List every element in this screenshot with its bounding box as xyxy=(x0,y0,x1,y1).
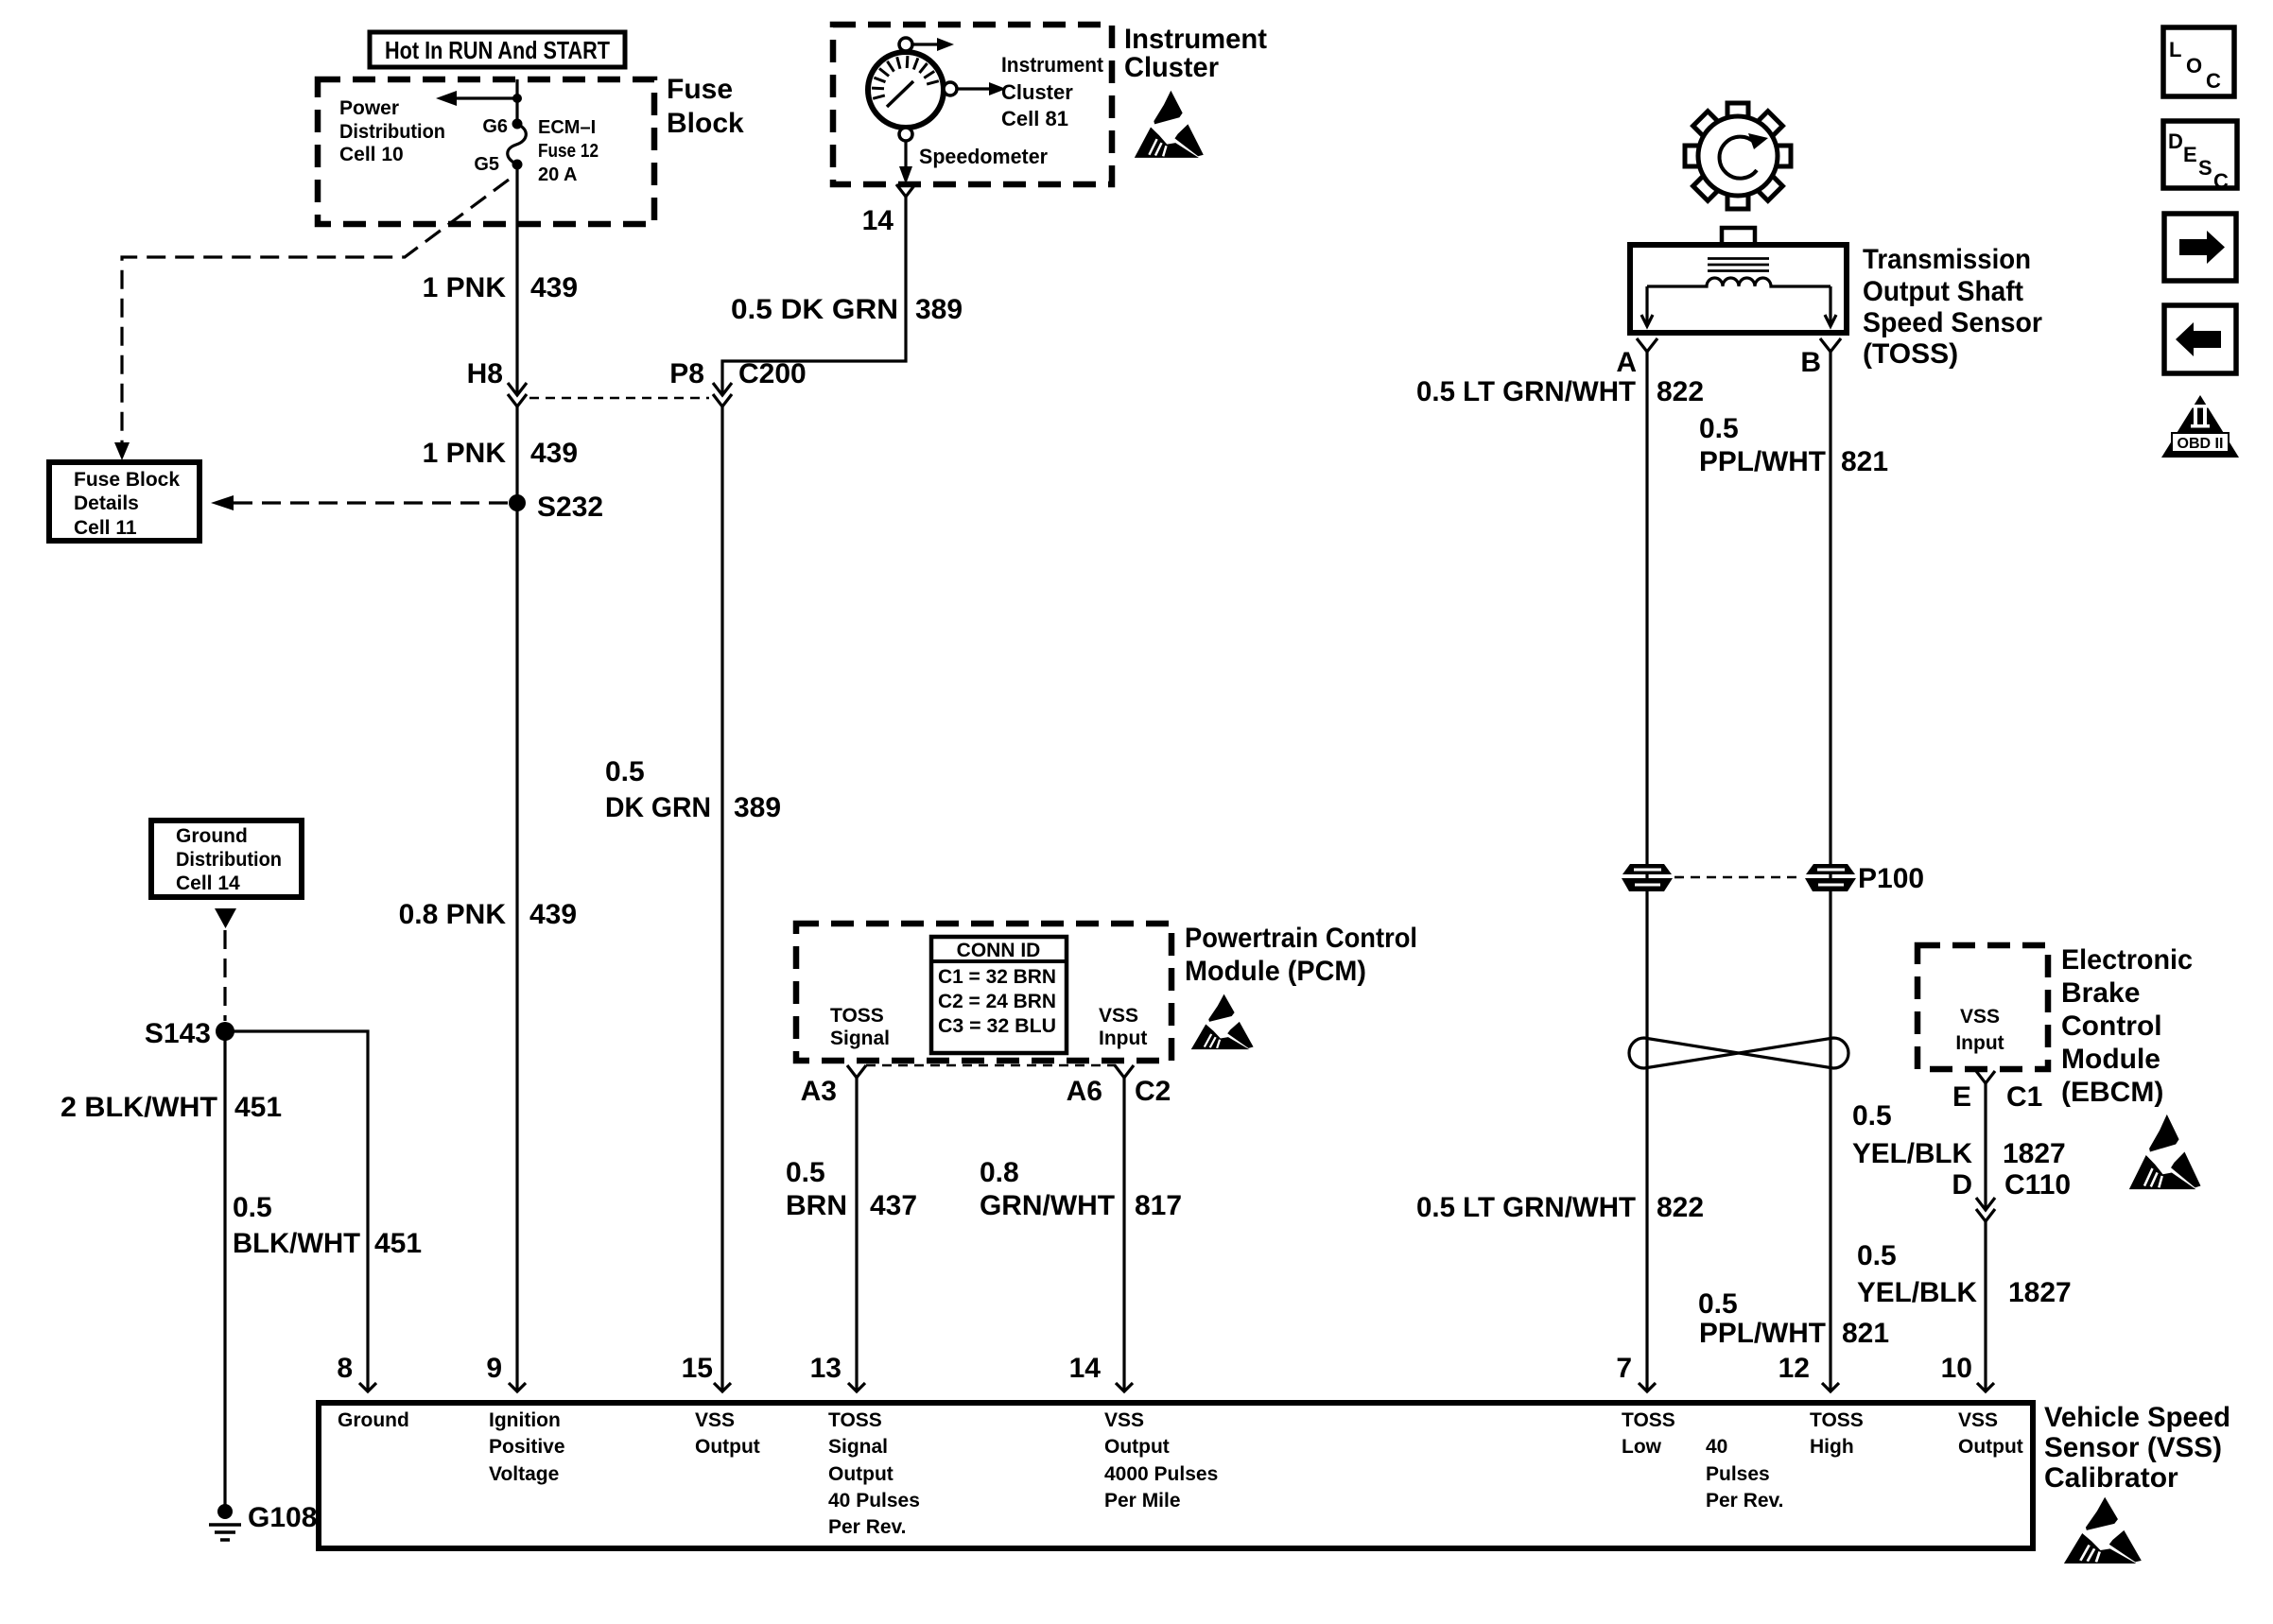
svg-text:E: E xyxy=(1952,1081,1971,1113)
splice S143 dot xyxy=(216,1022,234,1041)
svg-text:Input: Input xyxy=(1955,1032,2004,1054)
rotation arrow xyxy=(1720,137,1757,179)
svg-text:PPL/WHT: PPL/WHT xyxy=(1699,1318,1826,1349)
svg-text:Positive: Positive xyxy=(489,1436,565,1458)
svg-text:VSS: VSS xyxy=(1958,1409,1998,1431)
OBD II triangle icon xyxy=(2161,395,2239,458)
svg-text:Low: Low xyxy=(1622,1436,1662,1458)
PCM dashed box xyxy=(796,924,1171,1061)
ESD symbol EBCM xyxy=(2129,1114,2201,1189)
svg-text:Fuse Block: Fuse Block xyxy=(74,469,180,491)
wire PNK from hot feed into fuse block xyxy=(515,79,518,124)
junction dot xyxy=(512,94,522,103)
gear icon xyxy=(1685,103,1791,209)
svg-text:Input: Input xyxy=(1099,1028,1147,1049)
svg-text:451: 451 xyxy=(234,1092,282,1123)
ESD symbol VSS calibrator xyxy=(2064,1497,2142,1564)
connector P8 male chevron xyxy=(713,383,732,395)
svg-text:9: 9 xyxy=(486,1353,502,1384)
svg-text:14: 14 xyxy=(1069,1353,1102,1384)
grommet P100 on wire A xyxy=(1622,864,1673,891)
svg-text:VSS: VSS xyxy=(1960,1006,2000,1028)
svg-text:4000 Pulses: 4000 Pulses xyxy=(1104,1463,1218,1485)
svg-text:C2 = 24 BRN: C2 = 24 BRN xyxy=(938,991,1056,1012)
svg-text:821: 821 xyxy=(1842,1318,1889,1349)
svg-text:Cell 10: Cell 10 xyxy=(339,144,404,165)
connector H8 male chevron xyxy=(508,383,527,395)
connector P8 female chevron xyxy=(713,394,732,406)
TOSS internal wire A xyxy=(1645,286,1648,325)
svg-text:439: 439 xyxy=(530,438,578,469)
wire DK GRN P8 to pin 15 xyxy=(720,406,723,1391)
wire 0.5 DK GRN 389 from cluster xyxy=(722,197,906,395)
wire 0.5 BRN 437 A3 to pin 13 xyxy=(855,1078,858,1391)
svg-text:TOSS: TOSS xyxy=(830,1005,884,1027)
LOC icon box xyxy=(2163,27,2234,96)
svg-text:BRN: BRN xyxy=(786,1190,847,1221)
gauge ticks xyxy=(872,56,939,98)
svg-text:C2: C2 xyxy=(1135,1076,1171,1107)
svg-text:Cell 81: Cell 81 xyxy=(1001,107,1068,130)
svg-text:ECM–I: ECM–I xyxy=(538,117,596,138)
svg-text:Transmission: Transmission xyxy=(1863,244,2031,275)
svg-text:0.8: 0.8 xyxy=(980,1157,1019,1188)
svg-text:0.5 LT GRN/WHT: 0.5 LT GRN/WHT xyxy=(1416,376,1636,407)
svg-text:TOSS: TOSS xyxy=(1622,1409,1675,1431)
svg-text:Control: Control xyxy=(2061,1011,2162,1042)
pin 13 chevron xyxy=(848,1383,865,1391)
svg-text:Pulses: Pulses xyxy=(1706,1463,1770,1485)
svg-text:14: 14 xyxy=(862,205,894,236)
svg-text:Per Rev.: Per Rev. xyxy=(1706,1490,1784,1512)
svg-text:Speed Sensor: Speed Sensor xyxy=(1863,307,2042,338)
svg-text:S143: S143 xyxy=(145,1018,211,1049)
arrowhead left at fuse block details xyxy=(211,495,234,510)
svg-text:C3 = 32 BLU: C3 = 32 BLU xyxy=(938,1015,1056,1037)
svg-text:Cell 11: Cell 11 xyxy=(74,517,137,539)
gauge terminal top xyxy=(899,38,912,51)
dashed reference from G5 to fuse block details xyxy=(122,180,509,442)
dashed reference from S232 to fuse block details xyxy=(234,501,509,504)
wire TOSS low A to pin 7 xyxy=(1645,352,1648,1391)
gauge needle xyxy=(887,81,913,107)
svg-text:7: 7 xyxy=(1616,1353,1632,1384)
TOSS core lines xyxy=(1708,259,1769,271)
connector C110 male chevron xyxy=(1976,1198,1995,1210)
svg-text:Distribution: Distribution xyxy=(339,121,445,143)
wire speedometer output with arrowhead xyxy=(904,141,907,168)
svg-text:TOSS: TOSS xyxy=(1810,1409,1864,1431)
svg-text:H8: H8 xyxy=(467,358,503,389)
svg-text:Vehicle Speed: Vehicle Speed xyxy=(2044,1402,2230,1433)
svg-text:Powertrain Control: Powertrain Control xyxy=(1185,923,1417,954)
svg-text:C1: C1 xyxy=(2006,1081,2042,1113)
CONN ID table xyxy=(931,937,1067,1053)
svg-text:Voltage: Voltage xyxy=(489,1463,559,1485)
svg-text:2 BLK/WHT: 2 BLK/WHT xyxy=(61,1092,217,1123)
svg-text:1 PNK: 1 PNK xyxy=(423,438,507,469)
svg-text:15: 15 xyxy=(682,1353,713,1384)
splice S232 dot xyxy=(509,494,526,511)
arrowhead from ground distribution xyxy=(215,908,236,928)
svg-text:1 PNK: 1 PNK xyxy=(423,272,507,303)
svg-text:S: S xyxy=(2198,156,2212,180)
svg-text:Electronic: Electronic xyxy=(2061,944,2193,976)
svg-text:C1 = 32 BRN: C1 = 32 BRN xyxy=(938,966,1056,988)
svg-text:12: 12 xyxy=(1778,1353,1810,1384)
pin 7 chevron xyxy=(1639,1383,1656,1391)
svg-text:Sensor (VSS): Sensor (VSS) xyxy=(2044,1432,2222,1463)
svg-text:451: 451 xyxy=(374,1228,422,1259)
svg-text:(TOSS): (TOSS) xyxy=(1863,338,1958,370)
connector chevron below cluster xyxy=(896,184,915,197)
ground distribution box xyxy=(151,821,302,897)
svg-text:822: 822 xyxy=(1657,376,1704,407)
svg-text:0.5: 0.5 xyxy=(786,1157,825,1188)
svg-text:A3: A3 xyxy=(801,1076,837,1107)
svg-text:Output Shaft: Output Shaft xyxy=(1863,276,2023,307)
svg-text:0.5 LT GRN/WHT: 0.5 LT GRN/WHT xyxy=(1416,1192,1636,1223)
svg-text:Module (PCM): Module (PCM) xyxy=(1185,956,1366,987)
ground G108 dot xyxy=(217,1504,233,1519)
right arrow icon box xyxy=(2164,214,2236,281)
VSS calibrator box xyxy=(319,1403,2033,1548)
svg-text:P100: P100 xyxy=(1858,863,1924,894)
svg-text:Ground: Ground xyxy=(338,1409,409,1431)
connector E chevron xyxy=(1976,1071,1995,1083)
svg-text:D: D xyxy=(2168,130,2183,153)
svg-text:822: 822 xyxy=(1657,1192,1704,1223)
svg-text:389: 389 xyxy=(915,294,963,325)
svg-text:389: 389 xyxy=(734,792,781,823)
svg-text:10: 10 xyxy=(1941,1353,1972,1384)
svg-text:P8: P8 xyxy=(669,358,704,389)
EBCM dashed box xyxy=(1917,945,2048,1069)
svg-text:YEL/BLK: YEL/BLK xyxy=(1857,1277,1977,1308)
svg-text:Output: Output xyxy=(828,1463,894,1485)
svg-text:Cell 14: Cell 14 xyxy=(176,872,240,894)
svg-text:DK GRN: DK GRN xyxy=(605,792,711,823)
svg-text:13: 13 xyxy=(810,1353,842,1384)
pin 9 chevron xyxy=(509,1383,526,1391)
svg-text:A: A xyxy=(1616,347,1637,378)
svg-text:B: B xyxy=(1800,347,1821,378)
pin 10 chevron xyxy=(1977,1383,1994,1391)
arrowhead down to fuse block details xyxy=(114,442,130,460)
svg-text:Hot In RUN And START: Hot In RUN And START xyxy=(385,36,610,64)
pin 8 chevron xyxy=(359,1383,376,1391)
svg-text:Per Rev.: Per Rev. xyxy=(828,1516,907,1538)
svg-text:OBD II: OBD II xyxy=(2178,436,2224,452)
gauge terminal right xyxy=(944,82,957,95)
svg-text:40 Pulses: 40 Pulses xyxy=(828,1490,920,1512)
svg-text:0.5: 0.5 xyxy=(1857,1240,1897,1271)
fuse block dashed box xyxy=(318,79,654,224)
svg-text:S232: S232 xyxy=(537,492,603,523)
svg-text:20 A: 20 A xyxy=(538,164,578,185)
svg-text:VSS: VSS xyxy=(695,1409,735,1431)
arrow from top terminal xyxy=(913,43,939,45)
svg-text:Output: Output xyxy=(1958,1436,2023,1458)
wire 0.5 YEL/BLK 1827 lower to pin 10 xyxy=(1984,1221,1987,1391)
svg-text:817: 817 xyxy=(1135,1190,1182,1221)
svg-text:G5: G5 xyxy=(474,154,499,175)
pin 15 chevron xyxy=(714,1383,731,1391)
instrument cluster dashed box xyxy=(833,25,1112,184)
svg-text:G6: G6 xyxy=(482,116,508,137)
svg-text:A6: A6 xyxy=(1067,1076,1102,1107)
connector C110 female chevron xyxy=(1976,1209,1995,1221)
svg-text:Cluster: Cluster xyxy=(1001,80,1073,104)
svg-text:Block: Block xyxy=(667,108,744,139)
svg-text:VSS: VSS xyxy=(1099,1005,1138,1027)
connector chevron B below TOSS xyxy=(1820,338,1841,352)
svg-text:Signal: Signal xyxy=(830,1028,890,1049)
svg-text:Fuse: Fuse xyxy=(667,74,733,105)
svg-text:O: O xyxy=(2186,54,2202,78)
Hot In RUN And START label box xyxy=(370,32,625,67)
svg-text:0.5: 0.5 xyxy=(1699,413,1739,444)
TOSS coil xyxy=(1647,278,1831,286)
svg-text:Calibrator: Calibrator xyxy=(2044,1462,2178,1494)
svg-text:8: 8 xyxy=(337,1353,353,1384)
svg-text:(EBCM): (EBCM) xyxy=(2061,1077,2163,1108)
arrow from right terminal xyxy=(958,87,991,90)
svg-text:G108: G108 xyxy=(248,1502,317,1533)
svg-text:Module: Module xyxy=(2061,1044,2160,1075)
wire 1 PNK 439 fuse block to H8 xyxy=(515,164,518,395)
svg-text:Ignition: Ignition xyxy=(489,1409,561,1431)
terminal G6 dot xyxy=(512,119,523,130)
svg-text:Details: Details xyxy=(74,492,139,514)
wire BLK/WHT S143 down to G108 xyxy=(223,1031,226,1512)
svg-text:C200: C200 xyxy=(738,358,807,389)
wire TOSS high B to pin 12 xyxy=(1829,352,1831,1391)
twisted pair symbol xyxy=(1629,1038,1848,1068)
svg-text:E: E xyxy=(2183,143,2197,166)
svg-text:PPL/WHT: PPL/WHT xyxy=(1699,446,1826,477)
wire 1 PNK 439 H8 to S232 to pin 9 xyxy=(515,406,518,1391)
svg-text:Output: Output xyxy=(695,1436,760,1458)
connector A3 chevron xyxy=(847,1065,866,1078)
dashed link P100 xyxy=(1674,876,1803,879)
svg-text:439: 439 xyxy=(529,899,577,930)
branch wire to power distribution xyxy=(456,96,517,99)
connector chevron A below TOSS xyxy=(1637,338,1657,352)
svg-text:1827: 1827 xyxy=(2003,1138,2066,1169)
svg-text:Power: Power xyxy=(339,97,399,119)
svg-text:L: L xyxy=(2169,38,2181,61)
pin 12 chevron xyxy=(1822,1383,1839,1391)
grommet P100 on wire B xyxy=(1805,864,1856,891)
ESD symbol instrument cluster xyxy=(1135,91,1204,158)
svg-text:0.5: 0.5 xyxy=(1852,1100,1892,1132)
svg-text:Per Mile: Per Mile xyxy=(1104,1490,1181,1512)
svg-text:YEL/BLK: YEL/BLK xyxy=(1852,1138,1972,1169)
svg-text:Instrument: Instrument xyxy=(1001,53,1104,77)
svg-text:GRN/WHT: GRN/WHT xyxy=(980,1190,1115,1221)
TOSS internal wire B xyxy=(1829,286,1831,325)
wire S143 to pin 8 xyxy=(225,1031,368,1391)
svg-text:Fuse 12: Fuse 12 xyxy=(538,141,599,162)
terminal G5 dot xyxy=(512,160,523,170)
svg-text:40: 40 xyxy=(1706,1436,1727,1458)
connector A6 chevron xyxy=(1115,1065,1134,1078)
connector C2 dashed link below PCM xyxy=(866,1064,1116,1067)
fuse ECM-I Fuse 12 element xyxy=(508,124,527,164)
TOSS box xyxy=(1630,245,1847,333)
wire 0.8 GRN/WHT 817 A6 to pin 14 xyxy=(1122,1078,1125,1391)
connector H8 female chevron xyxy=(508,394,527,406)
svg-text:C: C xyxy=(2213,169,2229,193)
left arrow icon box xyxy=(2164,305,2236,373)
DESC icon box xyxy=(2163,121,2237,193)
pin 14 chevron xyxy=(1116,1383,1133,1391)
svg-text:TOSS: TOSS xyxy=(828,1409,882,1431)
svg-text:821: 821 xyxy=(1841,446,1888,477)
svg-text:0.5: 0.5 xyxy=(605,756,645,787)
svg-text:Brake: Brake xyxy=(2061,977,2140,1009)
ESD symbol PCM xyxy=(1191,994,1254,1050)
svg-text:VSS: VSS xyxy=(1104,1409,1144,1431)
svg-text:BLK/WHT: BLK/WHT xyxy=(233,1228,360,1259)
fuse block details box xyxy=(49,462,200,541)
svg-text:Cluster: Cluster xyxy=(1124,52,1219,83)
svg-text:439: 439 xyxy=(530,272,578,303)
gauge terminal bottom xyxy=(899,128,912,141)
svg-text:0.5 DK GRN: 0.5 DK GRN xyxy=(731,294,898,325)
speedometer gauge circle xyxy=(868,52,944,128)
svg-text:Distribution: Distribution xyxy=(176,849,282,871)
svg-text:D: D xyxy=(1952,1169,1972,1201)
svg-text:0.8 PNK: 0.8 PNK xyxy=(399,899,507,930)
svg-text:High: High xyxy=(1810,1436,1854,1458)
svg-text:Output: Output xyxy=(1104,1436,1170,1458)
svg-text:437: 437 xyxy=(870,1190,917,1221)
wire 0.5 YEL/BLK 1827 upper xyxy=(1984,1083,1987,1210)
ground symbol G108 xyxy=(209,1525,241,1540)
arrowhead to power distribution xyxy=(436,91,457,106)
svg-text:C110: C110 xyxy=(2004,1169,2071,1201)
svg-text:CONN ID: CONN ID xyxy=(957,940,1041,961)
svg-text:C: C xyxy=(2206,69,2221,93)
connector C200 dashed link xyxy=(529,397,709,400)
TOSS sensor stem xyxy=(1722,228,1755,245)
dashed reference to S143 xyxy=(223,930,226,1021)
svg-text:Speedometer: Speedometer xyxy=(919,145,1048,168)
svg-text:Ground: Ground xyxy=(176,825,248,847)
svg-text:1827: 1827 xyxy=(2008,1277,2072,1308)
svg-text:0.5: 0.5 xyxy=(1698,1288,1738,1320)
svg-text:Instrument: Instrument xyxy=(1124,24,1267,55)
svg-text:Signal: Signal xyxy=(828,1436,888,1458)
svg-text:0.5: 0.5 xyxy=(233,1192,272,1223)
